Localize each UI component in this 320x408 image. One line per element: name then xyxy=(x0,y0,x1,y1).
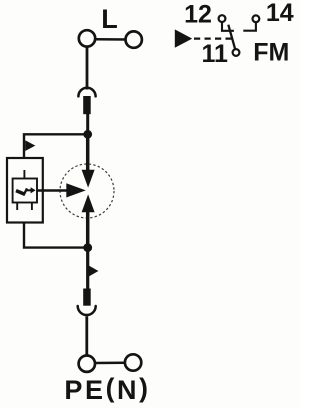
contact 14 terminal circle xyxy=(253,15,260,22)
svg-text:11: 11 xyxy=(201,40,228,68)
wire spark gap to node B xyxy=(86,212,90,248)
SPD element top lead xyxy=(23,170,25,179)
plug socket arc (bottom pluggable connection) xyxy=(78,306,96,315)
wire pin to node A xyxy=(86,114,89,134)
node A junction dot xyxy=(83,130,92,139)
wire branch from disconnect device (bottom) xyxy=(24,223,88,248)
plug socket arc (top pluggable connection) xyxy=(78,88,95,97)
contact 12 fixed contact xyxy=(222,22,234,31)
plug pin bar (bottom pluggable connection) xyxy=(83,289,91,306)
SPD element box xyxy=(13,179,37,203)
terminal circle PE right xyxy=(125,354,141,370)
flash symbol inside SPD element xyxy=(16,187,36,195)
FM mechanical link dashed line xyxy=(194,37,232,39)
wire L terminal down to plug connector xyxy=(86,47,89,90)
node B junction dot xyxy=(83,243,92,252)
FM actuator arrow xyxy=(175,29,192,47)
wire node A to spark gap xyxy=(86,134,90,170)
SPD element bottom lead right xyxy=(31,203,33,211)
surge direction arrow on PE path xyxy=(87,265,98,278)
contact 12 terminal circle xyxy=(219,15,226,22)
surge direction arrow into device xyxy=(25,140,35,151)
svg-text:FM: FM xyxy=(253,39,289,67)
spark gap top electrode xyxy=(82,170,95,188)
svg-text:14: 14 xyxy=(266,0,294,27)
trigger electrode line xyxy=(37,189,68,192)
wire between L terminals xyxy=(95,38,125,41)
trigger electrode arrowhead xyxy=(66,183,86,197)
terminal circle PE left xyxy=(79,356,95,372)
switch lever 11-12 xyxy=(228,25,235,50)
terminal circle L right xyxy=(126,31,142,47)
wire branch to disconnect device (top) xyxy=(24,134,88,158)
svg-text:L: L xyxy=(101,4,118,34)
svg-text:12: 12 xyxy=(184,0,212,28)
contact 14 fixed contact xyxy=(243,22,256,30)
wire socket to PE terminal xyxy=(85,316,88,355)
contact 11 terminal circle xyxy=(233,49,240,56)
SPD element bottom lead left xyxy=(16,203,18,211)
svg-text:PE(N): PE(N) xyxy=(64,373,150,405)
wire node B down to plug pin xyxy=(86,248,89,289)
plug pin bar (top pluggable connection) xyxy=(83,96,91,114)
spark gap bottom electrode xyxy=(82,194,95,212)
spark gap dashed circle xyxy=(60,164,114,218)
disconnect device outer box xyxy=(7,158,43,223)
wire between PE terminals xyxy=(95,361,125,364)
terminal circle L left xyxy=(79,30,95,46)
